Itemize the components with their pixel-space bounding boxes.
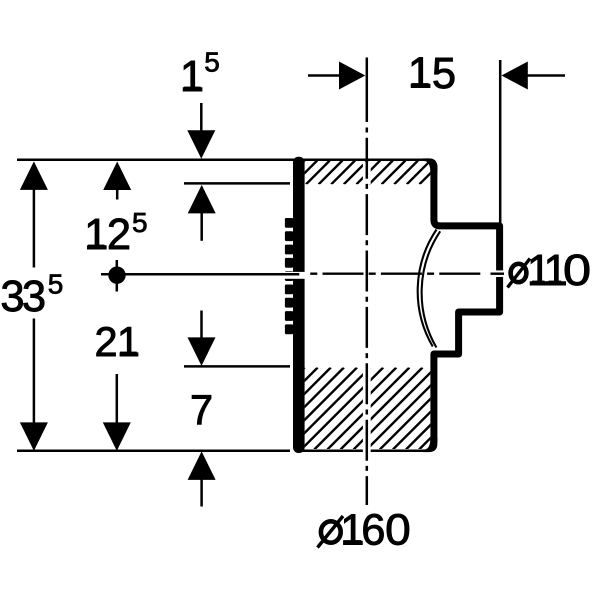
wire L1 top reference line: [17, 158, 430, 161]
wire center-point horizontal crosshair line: [101, 273, 299, 276]
wire vertical centerline dash-dot: [366, 128, 369, 506]
inner bore arc inner: [422, 231, 441, 347]
arrowhead dim 33.5 down: [20, 422, 48, 451]
hatch bottom band: [210, 368, 515, 450]
arrowhead dim 21 down: [103, 422, 131, 451]
wire L3 line: [184, 365, 290, 368]
halo vertical centerline through top hatch: [363, 162, 371, 184]
arrowhead dim 33.5 up: [20, 161, 48, 190]
fitting body: heavy left sealing edge: [293, 157, 305, 453]
wire vertical centerline long top dash: [366, 58, 369, 123]
wire dim-15 right leader: [526, 74, 565, 77]
wire tail of arrow to L2: [200, 212, 203, 241]
arrowhead dim 15 pointing right: [339, 62, 365, 90]
wire extension line x500: [499, 60, 502, 223]
wire tail of arrow 7: [200, 311, 203, 340]
arrowhead dim 1.5 down: [187, 130, 215, 159]
fitting body: top-right corner patch: [423, 158, 437, 173]
wire tail of arrow below L4: [200, 479, 203, 507]
svg-text:5: 5: [132, 207, 148, 238]
fitting body: thick outline right side / branch spigot: [434, 165, 500, 442]
svg-text:2: 2: [107, 211, 131, 259]
arrowhead up to L2: [188, 185, 216, 214]
halo on left edge at horizontal centerline: [284, 272, 307, 279]
arrowhead dim 7 down: [188, 337, 216, 366]
wire L2 socket-depth line: [184, 182, 290, 185]
svg-text:0: 0: [563, 245, 591, 294]
svg-text:1: 1: [180, 53, 204, 101]
svg-text:1: 1: [408, 50, 432, 98]
svg-text:0: 0: [385, 506, 411, 555]
svg-text:1: 1: [84, 211, 108, 259]
fitting body: bottom edge thin line: [300, 450, 430, 453]
svg-text:5: 5: [48, 269, 64, 300]
wire dim-33.5 vertical upper: [33, 189, 36, 268]
fitting body: gasket serration teeth: [285, 218, 293, 334]
svg-text:1: 1: [117, 318, 140, 365]
arrowhead dim 12.5 up: [103, 162, 131, 191]
label diameter 110: [511, 264, 527, 282]
svg-text:7: 7: [190, 386, 213, 433]
svg-text:5: 5: [204, 47, 220, 78]
halo vertical centerline through bottom hatch and bottom line: [363, 367, 371, 454]
svg-text:6: 6: [361, 507, 385, 555]
svg-text:2: 2: [94, 318, 117, 365]
wire L4 bottom reference line: [17, 450, 290, 453]
halo on spigot right edge at horizontal centerline: [495, 270, 505, 277]
wire tail of arrow 12.5: [116, 189, 119, 200]
fitting body: bottom-right corner patch: [423, 438, 437, 453]
arrowhead up below L4: [188, 451, 216, 480]
svg-text:3: 3: [22, 273, 46, 321]
wire tail of arrow 21: [116, 374, 119, 423]
label diameter 160: [321, 521, 341, 542]
wire dim-15 left leader: [308, 74, 344, 77]
wire horizontal centerline last dash through spigot edge: [491, 273, 505, 275]
wire horizontal centerline dash-dot: [310, 273, 481, 275]
inner bore arc outer: [418, 230, 437, 347]
hatch top band: [268, 161, 456, 185]
wire center-point vertical crosshair: [116, 260, 119, 292]
wire tail of arrow 1.5: [200, 103, 203, 132]
node center point dot: [108, 267, 125, 284]
arrowhead dim 15 pointing left: [502, 62, 528, 90]
wire dim-33.5 vertical lower: [33, 319, 36, 424]
svg-text:5: 5: [432, 50, 456, 98]
